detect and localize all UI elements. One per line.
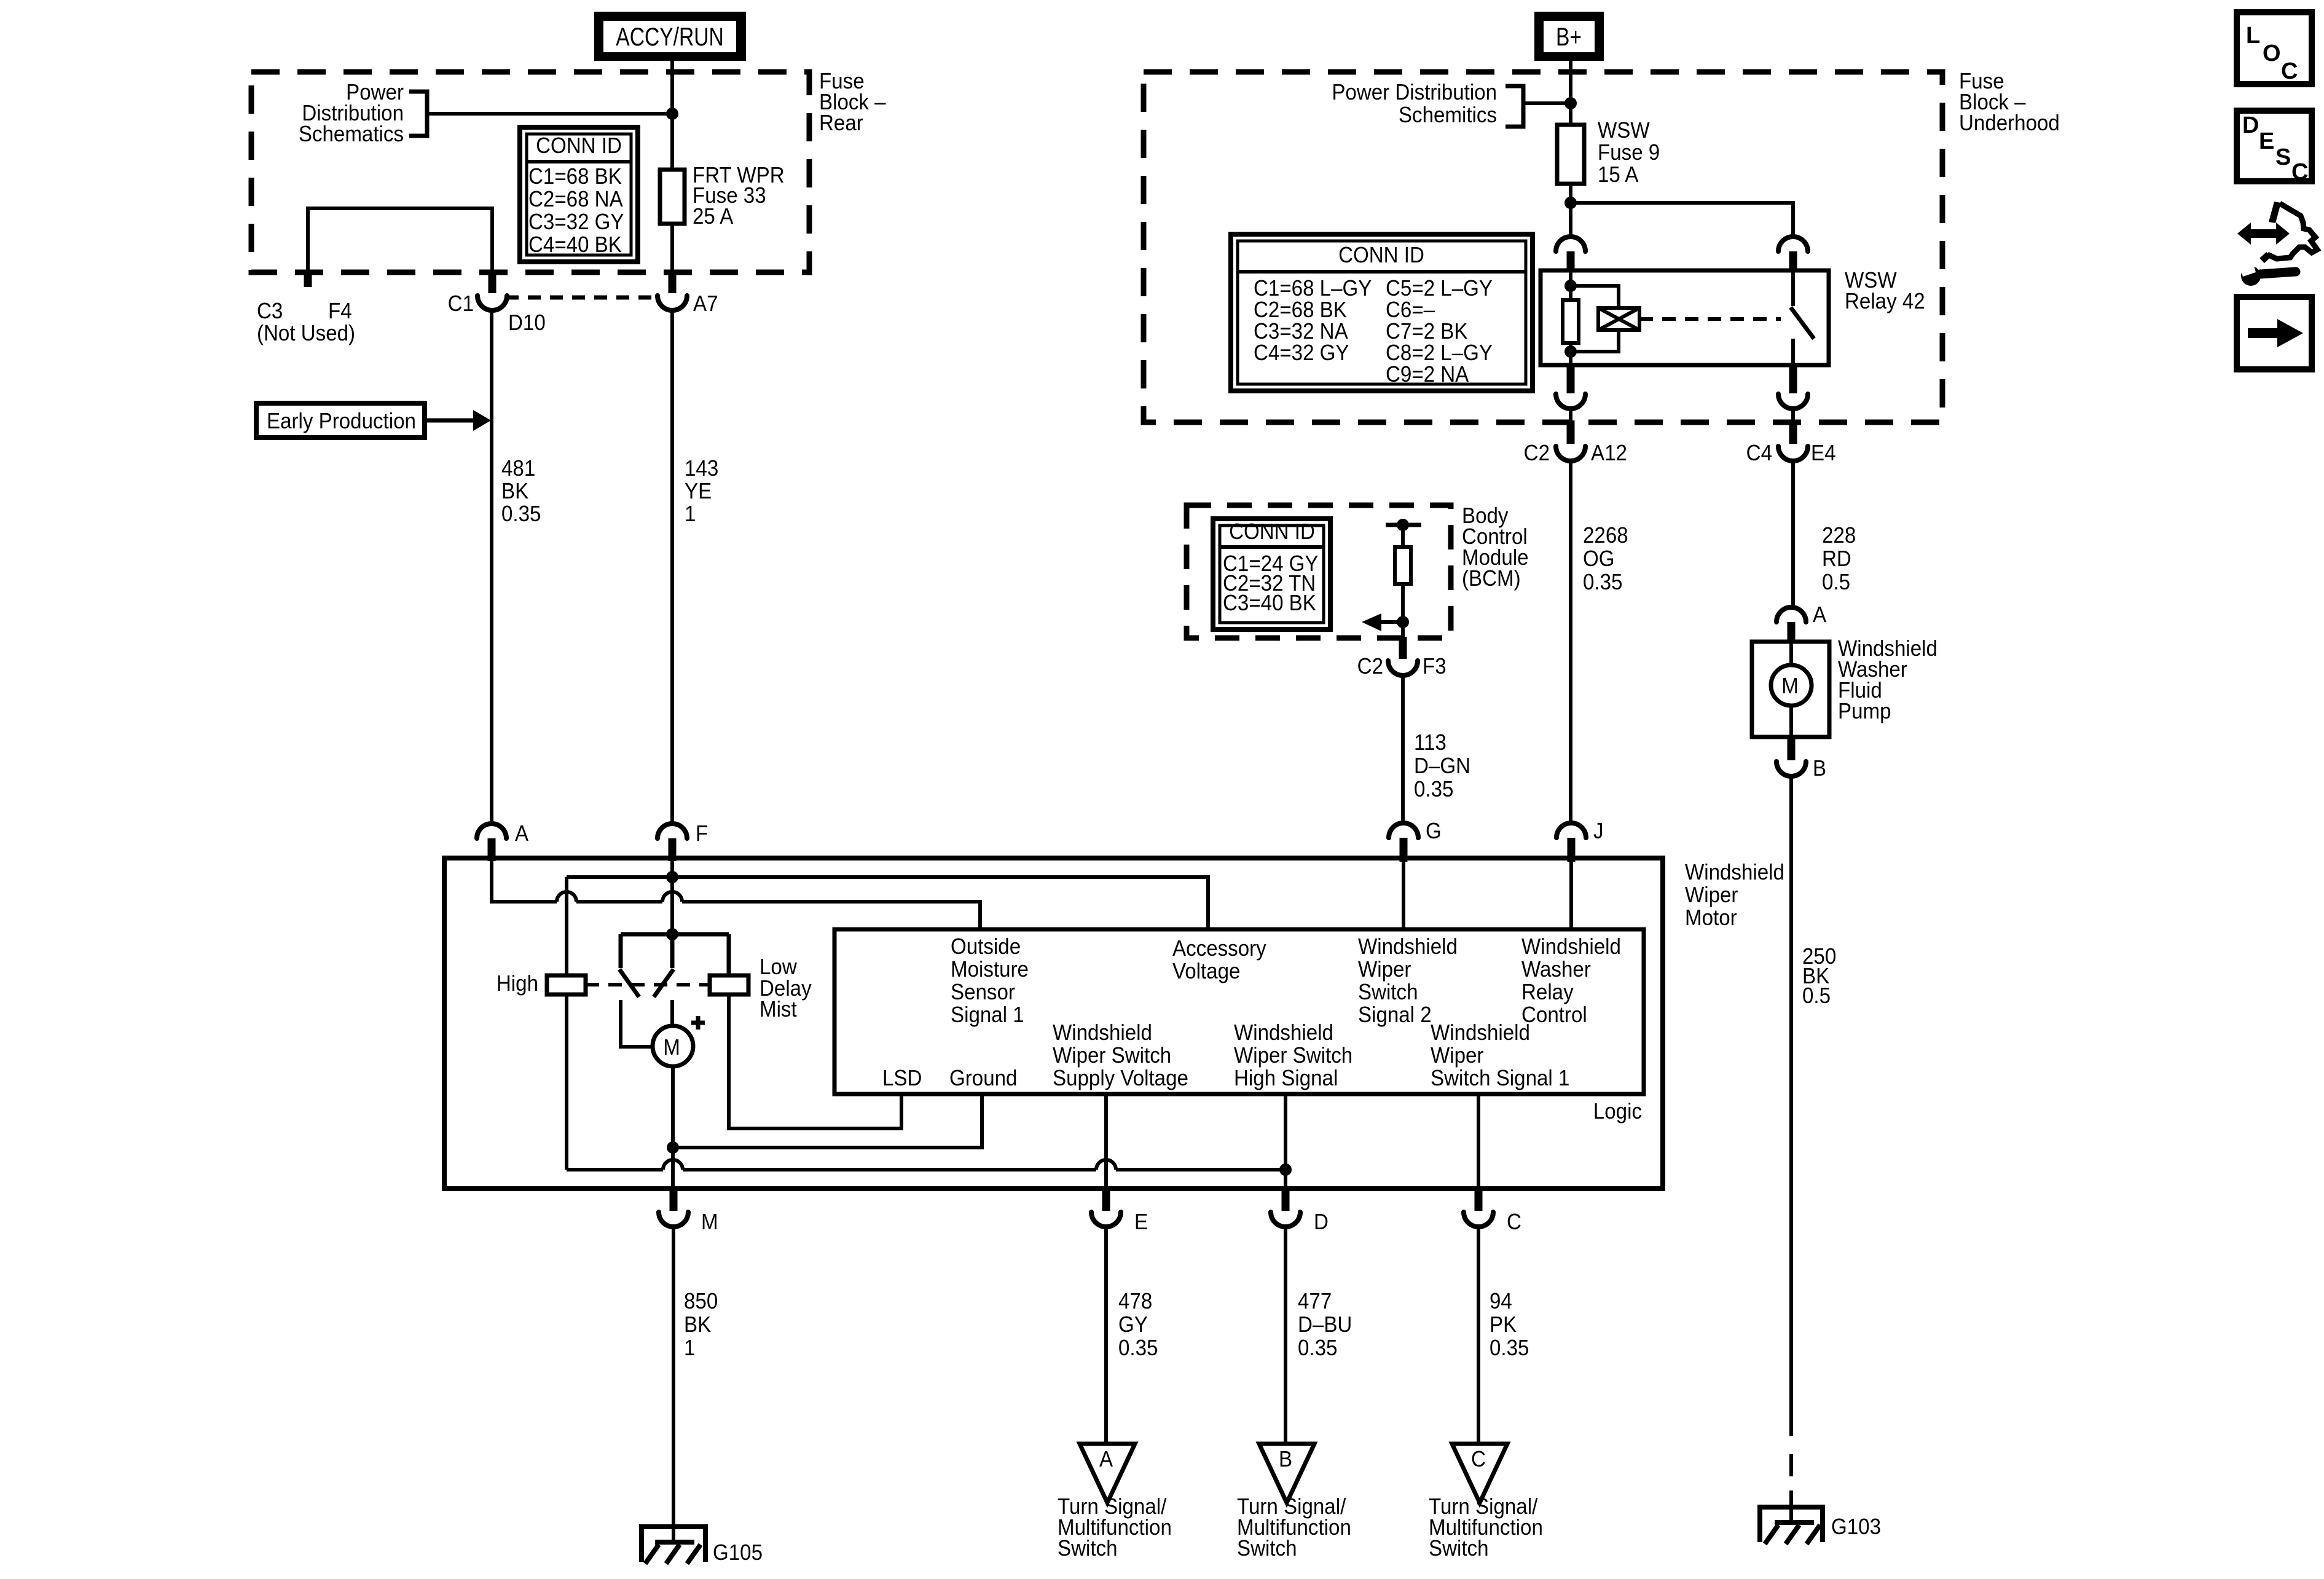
early production arrow	[425, 410, 491, 431]
wire G pin to logic	[1402, 862, 1405, 929]
BCM output arrow	[1362, 613, 1409, 631]
switch blade left	[619, 969, 639, 997]
svg-text:481: 481	[501, 457, 535, 481]
svg-text:OG: OG	[1583, 547, 1615, 572]
svg-text:B+: B+	[1556, 23, 1582, 52]
svg-text:C1: C1	[448, 292, 474, 317]
power symbol B+	[1534, 12, 1604, 61]
svg-text:477: 477	[1298, 1290, 1332, 1314]
wire 2268 OG (A12 to J)	[1569, 461, 1572, 822]
svg-text:LSD: LSD	[882, 1066, 922, 1091]
label Body Control Module (BCM)	[1462, 504, 1529, 591]
label Windshield Wiper Switch Signal 1 pin	[1431, 1021, 1569, 1091]
relay coil element	[1563, 300, 1579, 343]
label C3 F4 (Not Used)	[257, 299, 355, 346]
wire J pin to logic	[1569, 862, 1573, 929]
svg-text:CONN ID: CONN ID	[536, 134, 622, 159]
svg-text:C2=68 BK: C2=68 BK	[1254, 298, 1347, 323]
label Windshield Washer Fluid Pump	[1838, 637, 1937, 724]
label Power Distribution Schemitics	[1332, 81, 1523, 128]
connector B (washer pump)	[1776, 737, 1826, 781]
svg-text:850: 850	[684, 1290, 718, 1314]
svg-text:Early Production: Early Production	[267, 409, 416, 434]
junction dot on B+ wire	[1564, 97, 1577, 109]
svg-text:G103: G103	[1831, 1515, 1881, 1540]
label WSW Relay 42	[1845, 269, 1925, 314]
wire 94 PK (C to triangle C)	[1477, 1227, 1480, 1444]
svg-text:C2: C2	[1357, 655, 1383, 679]
svg-text:D–BU: D–BU	[1298, 1313, 1352, 1337]
svg-text:A7: A7	[693, 292, 718, 317]
svg-text:F4: F4	[328, 299, 352, 324]
label Logic	[1593, 1100, 1642, 1124]
svg-text:Switch: Switch	[1358, 980, 1418, 1005]
connector D	[1271, 1189, 1329, 1234]
label Accessory Voltage	[1172, 937, 1266, 984]
label Turn Signal Multifunction Switch B	[1237, 1495, 1351, 1561]
label wire 850 BK 1	[684, 1290, 718, 1361]
svg-text:B: B	[1279, 1447, 1292, 1472]
wire Fuse 9 to relay junction	[1569, 184, 1572, 237]
connector C3 F4 stub (not used)	[304, 270, 312, 287]
relay WSW Relay 42 box	[1541, 270, 1829, 365]
svg-text:228: 228	[1822, 524, 1856, 548]
svg-text:Motor: Motor	[1685, 906, 1737, 931]
svg-text:B: B	[1813, 757, 1826, 781]
label Windshield Wiper Switch Supply Voltage	[1053, 1021, 1188, 1091]
wire 850 BK (M to G105)	[672, 1227, 675, 1542]
off-page triangle B	[1259, 1444, 1314, 1503]
svg-text:25 A: 25 A	[693, 205, 733, 229]
connector G	[1389, 819, 1442, 862]
off-page triangle C	[1452, 1444, 1507, 1503]
svg-text:Wiper Switch: Wiper Switch	[1053, 1044, 1171, 1068]
wire 250 BK (B to G103)	[1789, 776, 1793, 1436]
svg-text:C4=40 BK: C4=40 BK	[528, 233, 622, 258]
svg-text:D–GN: D–GN	[1414, 754, 1470, 779]
svg-text:C: C	[2291, 159, 2308, 185]
svg-text:Switch: Switch	[1058, 1537, 1118, 1561]
svg-text:CONN ID: CONN ID	[1338, 243, 1424, 268]
junction dot on ACCY wire	[666, 108, 678, 120]
conn id table (BCM)	[1213, 519, 1330, 629]
svg-text:Wiper: Wiper	[1685, 883, 1738, 908]
svg-text:1: 1	[684, 1336, 695, 1361]
label Windshield Washer Relay Control	[1521, 935, 1621, 1028]
icon LOC	[2237, 12, 2312, 84]
svg-text:High: High	[497, 972, 538, 996]
svg-text:F: F	[696, 822, 708, 846]
svg-text:L: L	[2246, 23, 2260, 49]
label Outside Moisture Sensor Signal 1	[951, 935, 1029, 1028]
svg-text:CONN ID: CONN ID	[1229, 520, 1315, 545]
label wire 2268 OG 0.35	[1583, 524, 1628, 595]
wire Fuse 33 to A7	[670, 224, 674, 272]
svg-text:Signal 2: Signal 2	[1358, 1003, 1432, 1028]
svg-text:G: G	[1426, 819, 1442, 844]
connector C	[1464, 1189, 1521, 1234]
svg-text:Relay: Relay	[1521, 980, 1574, 1005]
relay coil lower pin	[1556, 365, 1585, 422]
fuse F33 FRT WPR	[660, 163, 785, 229]
windshield wiper motor box	[444, 858, 1663, 1189]
svg-text:Wiper Switch: Wiper Switch	[1234, 1044, 1352, 1068]
wire schematics bracket to ACCY wire	[427, 112, 672, 116]
label wire 478 GY 0.35	[1118, 1290, 1158, 1361]
svg-text:WSW: WSW	[1598, 119, 1650, 143]
svg-text:C6=–: C6=–	[1386, 298, 1435, 323]
svg-text:M: M	[663, 1036, 680, 1060]
wire ACCY/RUN to Fuse 33	[670, 60, 674, 170]
svg-text:High Signal: High Signal	[1234, 1066, 1338, 1091]
connector J	[1557, 819, 1604, 862]
svg-text:C9=2 NA: C9=2 NA	[1386, 363, 1469, 387]
svg-text:M: M	[701, 1210, 718, 1235]
svg-text:BK: BK	[684, 1313, 711, 1337]
svg-text:A12: A12	[1591, 441, 1627, 466]
label Windshield Wiper Motor	[1685, 860, 1784, 931]
logic box	[834, 929, 1644, 1094]
svg-text:C: C	[2281, 58, 2298, 84]
svg-text:Underhood: Underhood	[1959, 111, 2060, 136]
wire C3-F4 link inside fuse block	[308, 208, 492, 272]
svg-text:Accessory: Accessory	[1172, 937, 1266, 961]
svg-text:C3=32 GY: C3=32 GY	[528, 210, 624, 235]
label Low Delay Mist	[760, 955, 812, 1022]
svg-text:C8=2 L–GY: C8=2 L–GY	[1386, 341, 1493, 366]
svg-text:C4=32 GY: C4=32 GY	[1254, 341, 1349, 366]
svg-text:PK: PK	[1490, 1313, 1517, 1337]
wire motor to M connector	[667, 1066, 679, 1189]
high speed element	[547, 975, 586, 994]
switch dashed link	[586, 983, 710, 986]
wire 143 YE (A7 to F)	[670, 310, 674, 822]
off-page triangle A	[1080, 1444, 1135, 1503]
svg-text:A: A	[1813, 603, 1826, 628]
junction dot below Fuse 9	[1564, 197, 1577, 209]
svg-text:GY: GY	[1118, 1313, 1148, 1337]
conn id table (fuse block rear)	[520, 127, 638, 262]
label wire 250 BK 0.5	[1802, 945, 1836, 1009]
svg-text:Switch: Switch	[1237, 1537, 1297, 1561]
conn id table (fuse block underhood)	[1231, 234, 1533, 391]
label Windshield Wiper Switch High Signal	[1234, 1021, 1352, 1091]
wire B+ to Fuse 9	[1569, 60, 1572, 125]
BCM driver element	[1395, 525, 1411, 638]
svg-text:Switch: Switch	[1429, 1537, 1489, 1561]
washer pump motor M	[1771, 642, 1812, 737]
svg-text:Schemitics: Schemitics	[1399, 103, 1497, 128]
icon next arrow	[2237, 297, 2312, 369]
wire high to D (high signal)	[567, 1160, 1292, 1176]
svg-text:M: M	[1781, 674, 1799, 699]
svg-text:Washer: Washer	[1521, 958, 1591, 982]
svg-text:Pump: Pump	[1838, 699, 1891, 724]
switch blade right	[654, 969, 673, 997]
svg-text:0.5: 0.5	[1802, 984, 1831, 1009]
body control module dashed box	[1187, 505, 1451, 638]
wire 250 BK dashed section	[1789, 1454, 1793, 1520]
wire high branch	[565, 877, 568, 1170]
svg-text:S: S	[2275, 144, 2291, 170]
connector C1 D10	[448, 270, 546, 335]
label High	[497, 972, 538, 996]
label Windshield Wiper Switch Signal 2	[1358, 935, 1458, 1028]
relay actuator dashed line	[1639, 317, 1781, 321]
svg-text:A: A	[515, 822, 528, 846]
svg-text:Wiper: Wiper	[1358, 958, 1411, 982]
ground G103	[1757, 1507, 1881, 1544]
svg-text:Ground: Ground	[949, 1066, 1017, 1091]
icon DESC	[2237, 111, 2312, 185]
wire A inside (accy feed to moisture pin)	[492, 860, 980, 929]
svg-text:(Not Used): (Not Used)	[257, 321, 355, 346]
connector pair dashed link C1-A7	[506, 296, 655, 300]
svg-text:478: 478	[1118, 1290, 1152, 1314]
svg-text:C3: C3	[257, 299, 283, 324]
svg-text:Moisture: Moisture	[951, 958, 1029, 982]
svg-text:Signal 1: Signal 1	[951, 1003, 1024, 1028]
svg-text:94: 94	[1490, 1290, 1512, 1314]
label Fuse Block Rear	[819, 69, 886, 136]
svg-text:Windshield: Windshield	[1234, 1021, 1333, 1045]
svg-text:BK: BK	[501, 479, 528, 504]
wire ground pin to motor wire	[673, 1094, 982, 1148]
svg-text:ACCY/RUN: ACCY/RUN	[616, 23, 723, 52]
connector M	[659, 1189, 718, 1234]
svg-text:E: E	[1134, 1210, 1148, 1235]
svg-text:D: D	[2242, 112, 2259, 138]
wire switch signal 1 pin to C	[1477, 1094, 1480, 1189]
label wire 143 YE 1	[685, 457, 718, 527]
svg-text:Voltage: Voltage	[1172, 959, 1240, 984]
connector A7	[658, 270, 718, 316]
svg-text:0.35: 0.35	[1490, 1336, 1529, 1361]
wire junction to relay switch pin	[1571, 203, 1793, 237]
connector C2 F3	[1357, 637, 1447, 679]
svg-text:C2: C2	[1524, 441, 1550, 466]
svg-text:YE: YE	[685, 479, 712, 504]
connector C2 A12	[1524, 420, 1627, 465]
wire supply voltage pin to E	[1104, 1094, 1108, 1189]
svg-text:E4: E4	[1811, 441, 1835, 466]
svg-text:J: J	[1593, 819, 1604, 844]
label wire 94 PK 0.35	[1490, 1290, 1529, 1361]
wire 228 RD (E4 to pump A)	[1791, 461, 1795, 608]
relay suppressor X-box	[1598, 308, 1639, 330]
svg-text:113: 113	[1414, 731, 1447, 755]
switch bracket	[621, 934, 729, 975]
svg-text:F3: F3	[1423, 655, 1447, 679]
wire 478 GY (E to triangle A)	[1104, 1227, 1108, 1444]
label wire 477 D-BU 0.35	[1298, 1290, 1352, 1361]
label Fuse Block Underhood	[1959, 69, 2060, 136]
connector E	[1091, 1189, 1148, 1234]
wire high signal pin to D	[1284, 1094, 1287, 1189]
svg-text:Outside: Outside	[951, 935, 1021, 959]
svg-text:15 A: 15 A	[1598, 163, 1638, 187]
early production callout box	[256, 403, 425, 438]
svg-text:C1=68 L–GY: C1=68 L–GY	[1254, 277, 1372, 301]
relay switch contacts	[1791, 270, 1814, 365]
svg-text:0.35: 0.35	[1583, 570, 1622, 595]
svg-text:Supply Voltage: Supply Voltage	[1053, 1066, 1188, 1091]
svg-text:0.5: 0.5	[1822, 570, 1850, 595]
svg-text:C: C	[1471, 1447, 1486, 1472]
svg-text:(BCM): (BCM)	[1462, 567, 1521, 591]
svg-text:0.35: 0.35	[1414, 778, 1453, 802]
label Turn Signal Multifunction Switch A	[1058, 1495, 1172, 1561]
svg-text:C3=32 NA: C3=32 NA	[1254, 320, 1348, 344]
svg-text:C3=40 BK: C3=40 BK	[1223, 591, 1316, 616]
svg-text:Mist: Mist	[760, 998, 797, 1022]
wire switch common	[666, 877, 678, 940]
svg-text:Schematics: Schematics	[299, 122, 404, 147]
label wire 481 BK 0.35	[501, 457, 541, 527]
label Power Distribution Schematics	[299, 81, 427, 147]
wire 481 BK (C1 to A)	[490, 310, 493, 822]
svg-text:Sensor: Sensor	[951, 980, 1015, 1005]
svg-text:Windshield: Windshield	[1685, 860, 1784, 885]
svg-text:Relay 42: Relay 42	[1845, 289, 1925, 314]
svg-text:RD: RD	[1822, 547, 1851, 572]
svg-text:C5=2 L–GY: C5=2 L–GY	[1386, 277, 1493, 301]
svg-text:0.35: 0.35	[1118, 1336, 1158, 1361]
svg-text:0.35: 0.35	[501, 502, 541, 527]
connector F (wiper motor)	[658, 822, 708, 861]
svg-text:D: D	[1314, 1210, 1329, 1235]
fuse F9 WSW	[1557, 119, 1660, 187]
svg-text:Windshield: Windshield	[1358, 935, 1458, 959]
relay switch lower pin	[1778, 365, 1808, 422]
relay coil branch	[1564, 270, 1577, 365]
svg-text:G105: G105	[713, 1541, 763, 1565]
svg-text:Windshield: Windshield	[1521, 935, 1621, 959]
svg-text:E: E	[2259, 128, 2274, 154]
wire 477 D-BU (D to triangle B)	[1284, 1227, 1287, 1444]
svg-text:C: C	[1507, 1210, 1521, 1235]
svg-text:Windshield: Windshield	[1053, 1021, 1152, 1045]
connector C4 E4	[1746, 420, 1836, 465]
svg-text:143: 143	[685, 457, 718, 481]
ground G105	[639, 1527, 763, 1565]
low delay mist element	[710, 975, 748, 994]
svg-text:0.35: 0.35	[1298, 1336, 1337, 1361]
icon adjust (arrow and wrench)	[2237, 202, 2317, 286]
label Turn Signal Multifunction Switch C	[1429, 1495, 1543, 1561]
wire schemitics bracket to B+ wire	[1523, 101, 1571, 105]
fuse block underhood dashed box	[1144, 72, 1942, 422]
svg-text:D10: D10	[508, 311, 546, 336]
svg-text:Windshield: Windshield	[1431, 1021, 1530, 1045]
svg-text:O: O	[2263, 41, 2281, 66]
svg-text:C1=68 BK: C1=68 BK	[528, 165, 622, 189]
svg-text:Wiper: Wiper	[1431, 1044, 1483, 1068]
svg-text:Logic: Logic	[1593, 1100, 1642, 1124]
svg-text:C2=68 NA: C2=68 NA	[528, 187, 623, 212]
svg-text:Fuse 9: Fuse 9	[1598, 141, 1660, 165]
BCM driver top bar	[1386, 519, 1421, 531]
power symbol ACCY/RUN	[594, 12, 746, 61]
svg-text:Control: Control	[1521, 1003, 1587, 1028]
label LSD	[882, 1066, 922, 1091]
svg-text:2268: 2268	[1583, 524, 1628, 548]
wire F inside (to switch common and accessory voltage pin)	[567, 860, 1208, 929]
wire 113 D-GN (F3 to G)	[1401, 675, 1405, 822]
wiper motor M	[621, 1000, 705, 1066]
svg-text:Low: Low	[760, 955, 798, 980]
svg-text:Power Distribution: Power Distribution	[1332, 81, 1497, 105]
label wire 228 RD 0.5	[1822, 524, 1856, 595]
relay suppressor branch	[1571, 286, 1619, 352]
svg-text:Rear: Rear	[819, 111, 863, 136]
label Ground	[949, 1066, 1017, 1091]
svg-text:Switch Signal 1: Switch Signal 1	[1431, 1066, 1569, 1091]
connector A (wiper motor)	[477, 822, 528, 861]
relay switch pin connector	[1778, 237, 1808, 272]
washer fluid pump box	[1752, 642, 1829, 737]
svg-text:1: 1	[685, 502, 696, 527]
wire low branch to LSD	[729, 994, 901, 1128]
fuse block rear dashed box	[251, 72, 809, 272]
svg-text:C7=2 BK: C7=2 BK	[1386, 320, 1467, 344]
connector A (washer pump)	[1776, 603, 1826, 643]
label wire 113 D-GN 0.35	[1414, 731, 1470, 802]
svg-text:C4: C4	[1746, 441, 1772, 466]
svg-text:A: A	[1099, 1447, 1113, 1472]
relay coil pin connector	[1556, 237, 1585, 272]
